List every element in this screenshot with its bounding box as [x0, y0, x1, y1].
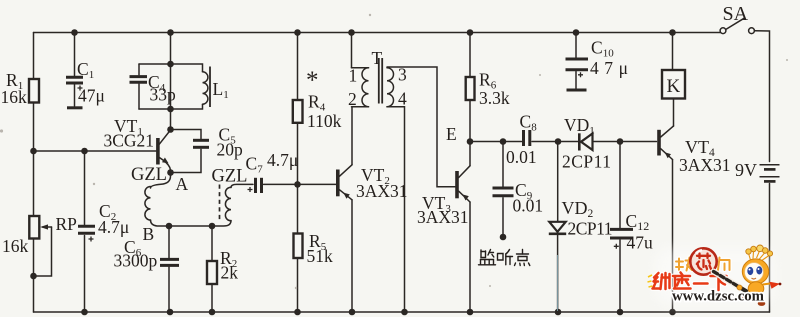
svg-text:4.7μ: 4.7μ: [98, 217, 129, 237]
svg-text:3AX31: 3AX31: [679, 155, 731, 175]
svg-text:*: *: [306, 67, 319, 94]
svg-text:110k: 110k: [307, 111, 342, 131]
svg-text:3AX31: 3AX31: [356, 181, 408, 201]
svg-text:A: A: [176, 174, 189, 194]
svg-text:SA: SA: [723, 3, 749, 25]
svg-text:51k: 51k: [307, 246, 334, 266]
svg-text:K: K: [667, 76, 681, 97]
svg-text:0.01: 0.01: [513, 196, 544, 216]
svg-text:2k: 2k: [221, 263, 239, 283]
svg-text:E: E: [446, 124, 457, 144]
svg-text:0.01: 0.01: [506, 147, 537, 167]
svg-text:www.dzsc.com: www.dzsc.com: [672, 289, 764, 305]
svg-text:1: 1: [349, 66, 358, 86]
svg-text:GZL: GZL: [212, 167, 248, 187]
svg-text:B: B: [143, 224, 155, 244]
svg-text:T: T: [372, 48, 383, 68]
svg-text:20p: 20p: [217, 140, 244, 160]
svg-text:47μ: 47μ: [590, 58, 628, 78]
svg-text:16k: 16k: [1, 87, 28, 107]
svg-text:2CP11: 2CP11: [562, 152, 611, 172]
svg-text:2: 2: [348, 89, 357, 109]
svg-text:4.7μ: 4.7μ: [267, 150, 298, 170]
svg-text:GZL: GZL: [131, 165, 167, 185]
svg-text:4: 4: [398, 89, 407, 109]
svg-text:47u: 47u: [627, 233, 654, 253]
svg-text:2CP11: 2CP11: [568, 219, 613, 239]
svg-text:9V: 9V: [735, 160, 757, 180]
svg-text:3AX31: 3AX31: [417, 207, 469, 227]
svg-text:3300p: 3300p: [114, 251, 158, 271]
svg-text:3.3k: 3.3k: [479, 88, 510, 108]
svg-text:3CG21: 3CG21: [104, 131, 155, 151]
svg-text:16k: 16k: [2, 236, 29, 256]
svg-text:3: 3: [398, 65, 407, 85]
svg-text:33p: 33p: [150, 85, 177, 105]
svg-text:RP: RP: [56, 214, 78, 234]
